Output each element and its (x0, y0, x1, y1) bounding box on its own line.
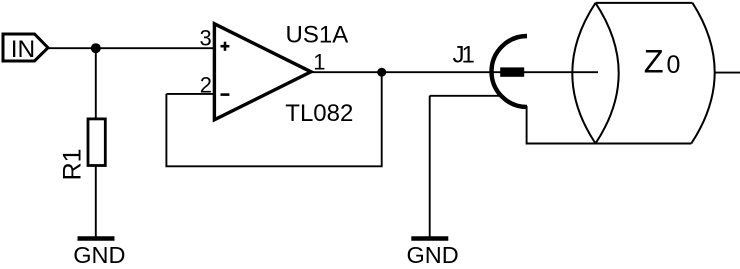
svg-text:TL082: TL082 (285, 100, 353, 127)
resistor R1 (88, 119, 105, 166)
pin number 2 (200, 73, 212, 98)
svg-text:GND: GND (73, 242, 125, 268)
label TL082 (285, 100, 353, 127)
svg-text:R1: R1 (59, 148, 87, 180)
wire op-amp pin 2 (166, 93, 214, 95)
pin number 1 (313, 49, 325, 74)
connector J1 shell arc (492, 36, 527, 107)
pin number 3 (200, 26, 212, 51)
label J1 (453, 41, 475, 68)
load Z0 cylinder (572, 3, 714, 144)
wire Z0 output (715, 72, 740, 74)
svg-text:IN: IN (11, 36, 36, 63)
wire J1 shield to Z0 body (527, 106, 596, 144)
svg-text:0: 0 (667, 51, 681, 79)
label R1 (59, 148, 87, 180)
label US1A (286, 22, 349, 49)
svg-text:1: 1 (313, 49, 325, 74)
ground GND left (73, 239, 125, 269)
ground GND right (407, 239, 459, 269)
svg-text:3: 3 (200, 26, 212, 51)
svg-text:Z: Z (644, 44, 664, 80)
junction node at IN/R1 (91, 43, 101, 53)
label Z0 (644, 44, 681, 80)
junction node at output (377, 68, 386, 77)
svg-text:1: 1 (462, 41, 475, 68)
connector J1 center pin (500, 67, 524, 76)
wire R1 to ground (95, 166, 97, 238)
wire junction to R1 (95, 48, 97, 119)
connector IN (3, 34, 48, 63)
svg-text:US1A: US1A (286, 22, 349, 49)
svg-text:GND: GND (407, 242, 459, 268)
feedback wire output to pin 2 (166, 72, 381, 166)
wire IN to op-amp pin 3 (48, 47, 214, 49)
wire shield to ground (430, 96, 500, 237)
wire op-amp output to J1 and Z0 (311, 71, 598, 73)
op-amp US1A (214, 24, 311, 120)
